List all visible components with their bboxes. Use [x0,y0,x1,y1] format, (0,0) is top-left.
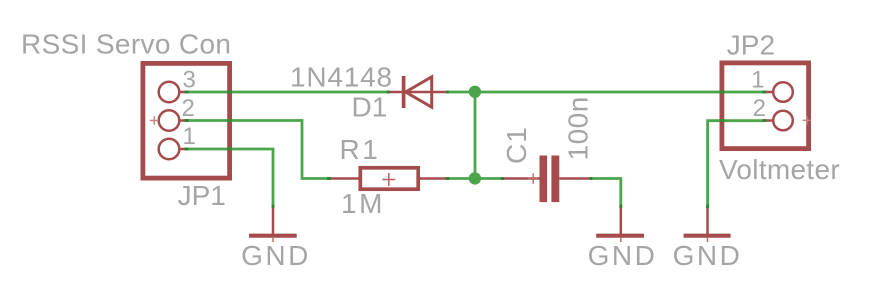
resistor R1 left lead [330,177,360,180]
overlap blend JP1 pin2 stub [185,119,189,122]
resistor R1 right lead [418,177,449,180]
svg-text:GND: GND [673,240,743,271]
capacitor C1 right plate [551,156,559,203]
ground GND2 bar [596,234,644,238]
svg-text:JP2: JP2 [727,30,775,61]
connector JP1 body [143,63,230,178]
wire net N$2 top row from D1 anode to JP2 pin1 [446,91,766,94]
JP2 pin 2 lead [766,119,773,122]
ground GND1 origin tick [272,238,274,242]
svg-text:3: 3 [183,67,196,94]
JP1 pin 3 circle [159,82,180,103]
overlap blend JP1 edge row 92 [227,91,232,94]
svg-text:2: 2 [753,95,766,122]
diode D1 triangle [406,77,432,107]
JP2 pin2 origin cross [803,116,812,124]
wire vertical between junctions [474,92,477,179]
svg-text:Voltmeter: Voltmeter [719,154,840,185]
JP2 pin 1 lead [766,91,773,94]
capacitor C1 left lead [504,177,540,180]
capacitor C1 origin cross [528,173,539,184]
diode D1 cathode bar [402,76,406,108]
overlap blend GND3 lead [706,205,709,208]
capacitor C1 left plate [540,156,548,203]
wire R1 right to junction to C1 left [446,177,505,180]
overlap blend C1 right [589,177,592,180]
ground GND1 lead [272,206,275,236]
wire JP2 pin2 to GND3 [708,121,766,207]
capacitor C1 right lead [559,177,592,180]
JP1 pin 1 circle [159,139,180,160]
overlap blend JP1 pin3 stub [185,91,189,94]
JP1 pin 3 lead [181,91,189,94]
svg-text:RSSI Servo Con: RSSI Servo Con [21,29,231,60]
overlap blend R1 left [327,177,331,180]
overlap blend JP2 pin1 stub [762,91,766,94]
junction dot bottom [469,172,481,184]
junction dot top [469,86,481,98]
overlap blend JP2 edge row 92 [720,91,725,94]
ground GND3 origin tick [707,238,709,242]
overlap blend D1 right [446,91,449,94]
JP2 pin 2 circle [773,111,793,131]
overlap blend C1 left [501,177,505,180]
wire from JP1 pin2 horizontal [185,119,302,122]
wire from JP1 pin2 vertical down to R1 row [302,119,331,178]
overlap blend R1 right [446,177,450,180]
resistor R1 body [360,168,418,189]
svg-text:1N4148: 1N4148 [290,62,393,93]
svg-text:1M: 1M [341,188,385,219]
JP2 pin 1 circle [773,82,793,102]
svg-text:100n: 100n [563,96,594,160]
JP1 pin2 origin cross [150,116,159,124]
JP1 pin 2 circle [159,110,180,131]
svg-text:JP1: JP1 [178,180,226,211]
overlap blend JP2 edge row 120.5 [720,119,725,122]
svg-text:R1: R1 [340,134,381,165]
svg-text:GND: GND [241,240,311,271]
overlap blend D1 left [387,91,390,94]
wire net N$1 top row from JP1 pin3 to D1 cathode [185,91,390,94]
overlap blend JP1 pin1 stub [185,148,189,151]
overlap blend JP2 pin2 stub [762,119,766,122]
overlap blend JP1 edge row 149 [227,148,232,151]
JP1 pin 1 lead [181,148,189,151]
ground GND2 lead [620,206,623,236]
ground GND1 bar [249,234,297,238]
wire from JP1 pin1 to GND [185,149,273,207]
svg-text:1: 1 [183,123,196,150]
ground GND3 lead [706,206,709,236]
connector JP2 body [722,63,809,149]
svg-text:GND: GND [588,240,658,271]
svg-text:D1: D1 [352,92,388,123]
wire C1 right to GND2 [592,179,621,208]
overlap blend GND2 lead [619,205,622,208]
svg-text:2: 2 [182,95,195,122]
diode D1 lead [390,91,446,94]
svg-text:1: 1 [751,67,764,94]
overlap blend GND1 lead [272,205,275,208]
ground GND2 origin tick [620,238,622,242]
overlap blend JP1 edge row 120.5 [227,119,232,122]
ground GND3 bar [684,234,731,238]
resistor R1 origin cross [382,173,395,186]
svg-text:C1: C1 [501,126,532,164]
JP1 pin 2 lead [181,119,189,122]
